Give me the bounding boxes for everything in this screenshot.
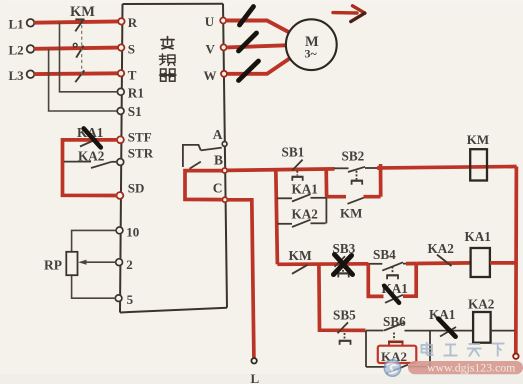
- coil KA2: [473, 312, 491, 343]
- button SB6 (NO): [384, 323, 404, 347]
- svg-text:W: W: [204, 68, 217, 83]
- coil KM: [470, 149, 487, 180]
- svg-text:L3: L3: [9, 68, 25, 83]
- svg-text:R: R: [128, 15, 138, 30]
- wire W-motor: [228, 59, 290, 74]
- svg-text:KA2: KA2: [468, 297, 495, 312]
- svg-text:KM: KM: [467, 132, 489, 147]
- slash mark on V wire: [239, 33, 257, 51]
- svg-text:R1: R1: [128, 86, 144, 101]
- svg-text:SB6: SB6: [383, 314, 406, 329]
- rail SB2 to KM coil: [377, 167, 517, 169]
- wire 5 to pot: [72, 275, 116, 298]
- svg-text:U: U: [205, 14, 215, 29]
- svg-text:L: L: [251, 371, 260, 384]
- svg-text:C: C: [213, 181, 223, 196]
- button SB3 (NC): [335, 256, 350, 277]
- terminal L3: [9, 68, 35, 83]
- coil KA1: [471, 248, 490, 277]
- svg-text:3~: 3~: [305, 47, 318, 61]
- contactor KM main contacts: [73, 19, 84, 82]
- slash mark on U wire: [240, 7, 254, 26]
- svg-text:STF: STF: [128, 129, 152, 144]
- terminal V: [206, 41, 227, 56]
- contact KA1 (STF): [80, 139, 97, 147]
- watermark band www.dgjs123.com: [408, 361, 523, 375]
- svg-text:S: S: [128, 41, 135, 56]
- svg-text:B: B: [214, 153, 223, 168]
- button SB2 (NO start): [334, 167, 377, 185]
- annotation slash over KA1: [438, 319, 455, 337]
- button SB5 (NC): [338, 322, 352, 344]
- terminal W: [204, 68, 228, 83]
- wire KA2 coil to supply: [491, 330, 515, 332]
- branch vertical V1: [276, 169, 278, 264]
- svg-text:KA2: KA2: [78, 148, 105, 163]
- terminal 10: [116, 225, 139, 240]
- annotation red box around KA2: [378, 346, 417, 363]
- svg-text:KA1: KA1: [292, 181, 318, 196]
- contact KA2 to STR: [64, 162, 117, 168]
- wire tap L2 to S1: [49, 49, 117, 111]
- wire 10 to pot: [72, 230, 117, 252]
- watermark characters 电工天下: [422, 342, 505, 357]
- contact KA2 (NC): [437, 255, 452, 266]
- parallel box SB6/KA2: [366, 331, 473, 367]
- terminal T: [118, 67, 137, 82]
- branch KA1 parallel SB4: [368, 264, 416, 303]
- terminal B: [214, 153, 227, 174]
- contact KA1 (parallel SB1): [277, 194, 326, 201]
- inverter label 变频器: [160, 37, 177, 82]
- rotation arrow: [333, 6, 365, 22]
- contact KA1 (NC rung3): [440, 327, 456, 337]
- svg-text:KA2: KA2: [428, 241, 455, 256]
- contact KA2 (parallel SB6): [387, 365, 409, 374]
- contact arm at B: [190, 162, 201, 169]
- svg-text:10: 10: [126, 225, 139, 240]
- right supply vertical: [514, 167, 518, 354]
- button SB1 (NC stop): [292, 160, 304, 181]
- contact arm at A: [183, 145, 222, 167]
- wire L1-R: [34, 21, 119, 22]
- terminal R1: [117, 86, 144, 101]
- wire C to L: [227, 200, 254, 358]
- svg-text:S1: S1: [128, 104, 142, 119]
- terminal L: [251, 358, 260, 384]
- contact KM (parallel SB2): [327, 164, 381, 204]
- branch vertical V2: [324, 168, 328, 196]
- terminal STF: [117, 129, 152, 144]
- watermark logo: [384, 360, 400, 376]
- rung2 wire left: [277, 262, 368, 266]
- wire L3-T: [34, 71, 119, 76]
- terminal R: [118, 15, 138, 30]
- terminal L1: [9, 17, 35, 32]
- terminal L2: [9, 43, 35, 58]
- inverter box outline: [120, 4, 227, 313]
- wiper arrow to 2: [78, 260, 116, 265]
- wire tap L1 to R1: [60, 23, 118, 92]
- terminal A: [213, 127, 227, 146]
- svg-text:A: A: [213, 127, 223, 142]
- svg-text:T: T: [128, 67, 137, 82]
- terminal C: [213, 181, 228, 203]
- svg-text:SB4: SB4: [373, 247, 396, 262]
- terminal U: [205, 14, 226, 29]
- annotation slash over KA1: [384, 286, 399, 303]
- annotation X over SB3: [334, 255, 353, 275]
- wire SB4 to corner: [406, 262, 416, 266]
- svg-text:STR: STR: [128, 146, 154, 161]
- feeder to rung3: [319, 264, 366, 330]
- motor M: [286, 19, 337, 70]
- terminal SD: [117, 180, 145, 199]
- svg-text:SB2: SB2: [342, 149, 365, 164]
- rung2 wire right: [416, 261, 470, 265]
- svg-text:SD: SD: [128, 180, 145, 195]
- terminal right supply: [513, 354, 518, 359]
- svg-text:SB1: SB1: [282, 145, 305, 160]
- svg-text:www.dgjs123.com: www.dgjs123.com: [427, 361, 515, 375]
- svg-text:L2: L2: [9, 43, 24, 58]
- svg-text:KM: KM: [340, 205, 362, 220]
- annotation slash over KA1: [84, 128, 101, 147]
- wire U-motor: [227, 21, 289, 33]
- svg-text:KA1: KA1: [465, 229, 491, 244]
- wire KA1 coil to supply: [490, 261, 516, 265]
- contact KA2 (parallel SB1): [277, 197, 326, 227]
- svg-text:5: 5: [127, 292, 134, 307]
- contact KM (rung2): [292, 265, 308, 274]
- svg-text:KM: KM: [70, 4, 95, 20]
- svg-text:2: 2: [126, 257, 133, 272]
- svg-text:L1: L1: [9, 17, 24, 32]
- rail B to SB2: [227, 169, 335, 171]
- button SB4 (NO): [368, 262, 408, 279]
- svg-text:SB5: SB5: [333, 308, 356, 323]
- svg-text:V: V: [206, 41, 216, 56]
- wire V-motor: [227, 45, 286, 47]
- slash mark on W wire: [239, 61, 259, 81]
- wire L2-S: [34, 48, 119, 49]
- svg-text:RP: RP: [44, 258, 62, 273]
- svg-text:KM: KM: [289, 248, 313, 263]
- terminal 2: [116, 257, 133, 272]
- terminal S1: [117, 104, 142, 119]
- terminal 5: [115, 292, 133, 307]
- wire STF loop to SD: [63, 140, 118, 196]
- svg-text:KA2: KA2: [292, 207, 319, 222]
- terminal S: [118, 41, 135, 56]
- potentiometer RP: [66, 252, 77, 275]
- red loop B to C: [185, 171, 222, 200]
- terminal STR: [117, 146, 154, 166]
